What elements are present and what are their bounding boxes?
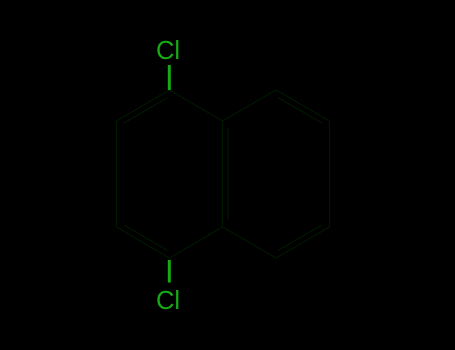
ring bond C5-C4a: [223, 227, 277, 258]
ring bond C8=C7: [276, 90, 330, 121]
svg-text:Cl: Cl: [156, 37, 180, 65]
ring bond C4-C4a: [170, 227, 223, 258]
ring bond C6=C5: [276, 227, 330, 258]
ring bond C2-C3 (left vertical): [116, 121, 118, 227]
ring bond C4a=C8a inner double line: [227, 129, 229, 219]
svg-text:Cl: Cl: [156, 287, 180, 315]
ring bond C8=C7 inner double line: [278, 98, 321, 123]
ring bond C8a-C8: [223, 90, 277, 121]
ring bond C7-C6 (right vertical): [329, 121, 331, 227]
ring bond C6=C5 inner double line: [278, 225, 321, 250]
ring bond C1=C2 inner double line: [125, 98, 168, 123]
bond C4-Cl (bottom, chlorine coloured): [168, 260, 171, 283]
ring bond C8a-C1: [170, 90, 223, 121]
ring bond C3-C4 (lower-left to bottom vertex): [117, 227, 170, 258]
ring bond C4a-C8a (central fused bond): [222, 121, 224, 227]
ring bond C1-C2 (top vertex to upper-left): [117, 90, 170, 121]
bond C1-Cl (top, chlorine coloured): [168, 65, 171, 90]
ring bond C3=C4 inner double line: [125, 225, 168, 250]
